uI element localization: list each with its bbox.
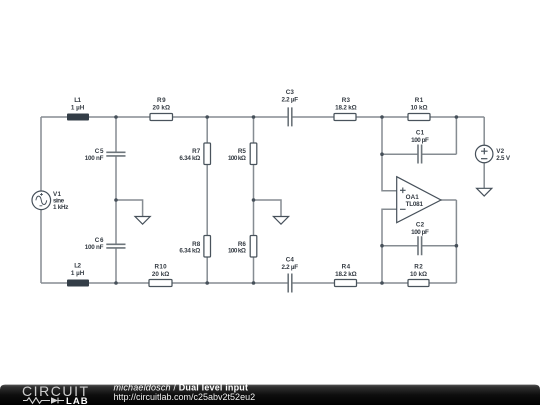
svg-text:100 pF: 100 pF <box>411 229 429 236</box>
svg-text:L1: L1 <box>74 97 81 104</box>
svg-text:R2: R2 <box>414 263 423 270</box>
svg-text:1 µH: 1 µH <box>71 104 85 111</box>
svg-text:20 kΩ: 20 kΩ <box>153 104 171 111</box>
svg-text:C5: C5 <box>95 148 104 155</box>
svg-text:R4: R4 <box>342 263 351 270</box>
svg-text:C4: C4 <box>286 257 295 264</box>
svg-text:C6: C6 <box>95 237 104 244</box>
svg-text:100 nF: 100 nF <box>85 155 104 162</box>
svg-text:http://circuitlab.com/c25abv2t: http://circuitlab.com/c25abv2t52eu2 <box>114 392 256 402</box>
svg-text:100 kΩ: 100 kΩ <box>228 155 246 162</box>
svg-text:6.34 kΩ: 6.34 kΩ <box>179 155 200 162</box>
svg-text:2.2 µF: 2.2 µF <box>281 264 298 271</box>
svg-text:18.2 kΩ: 18.2 kΩ <box>335 271 357 278</box>
svg-text:R10: R10 <box>155 263 168 270</box>
svg-text:TL081: TL081 <box>406 201 424 208</box>
svg-text:100 kΩ: 100 kΩ <box>228 248 246 255</box>
svg-text:R3: R3 <box>342 97 351 104</box>
svg-text:C3: C3 <box>286 89 295 96</box>
svg-text:18.2 kΩ: 18.2 kΩ <box>335 104 357 111</box>
svg-text:R9: R9 <box>157 97 166 104</box>
svg-text:10 kΩ: 10 kΩ <box>410 271 427 278</box>
svg-text:2.5 V: 2.5 V <box>496 155 511 162</box>
svg-text:1 kHz: 1 kHz <box>53 204 68 211</box>
svg-text:10 kΩ: 10 kΩ <box>411 104 428 111</box>
svg-text:100 pF: 100 pF <box>411 137 429 144</box>
svg-text:2.2 µF: 2.2 µF <box>281 96 298 103</box>
svg-text:100 nF: 100 nF <box>85 244 104 251</box>
svg-text:C1: C1 <box>416 130 425 137</box>
svg-text:R1: R1 <box>415 97 424 104</box>
svg-text:6.34 kΩ: 6.34 kΩ <box>179 248 200 255</box>
svg-text:C2: C2 <box>416 222 425 229</box>
svg-text:1 µH: 1 µH <box>71 270 85 277</box>
svg-text:20 kΩ: 20 kΩ <box>152 271 170 278</box>
svg-text:L2: L2 <box>74 263 81 270</box>
svg-text:LAB: LAB <box>66 396 89 405</box>
